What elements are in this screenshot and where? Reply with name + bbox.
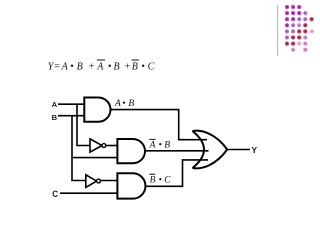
equation Y = A.B + notA.B + notB.C	[48, 60, 155, 72]
and gate U5	[117, 173, 145, 198]
svg-text:B•C: B•C	[150, 176, 172, 186]
svg-text:Y: Y	[251, 145, 257, 155]
and gate U1	[84, 98, 110, 122]
wire	[72, 116, 86, 181]
label notB.C	[149, 174, 171, 185]
svg-text:A•B: A•B	[114, 99, 134, 109]
wire	[58, 115, 84, 117]
svg-text:A: A	[52, 100, 58, 109]
inverter U4	[86, 175, 101, 188]
wire	[145, 150, 209, 152]
wire	[58, 103, 84, 105]
wire	[145, 160, 208, 186]
wire	[106, 145, 118, 147]
inverter U2	[90, 139, 106, 152]
label A.B	[114, 99, 134, 109]
wire	[77, 104, 90, 145]
wire	[72, 157, 117, 159]
or gate U6	[193, 131, 228, 169]
wire	[110, 110, 207, 140]
wire	[60, 192, 117, 194]
svg-text:C: C	[52, 189, 58, 199]
svg-text:A•B: A•B	[149, 141, 171, 151]
wire	[100, 180, 117, 182]
and gate U3	[117, 139, 145, 163]
svg-text:B: B	[52, 113, 58, 122]
wire	[227, 149, 250, 151]
label notA.B	[149, 139, 171, 150]
svg-text:Y=A•B+A•B+B•C: Y=A•B+A•B+B•C	[48, 61, 155, 72]
